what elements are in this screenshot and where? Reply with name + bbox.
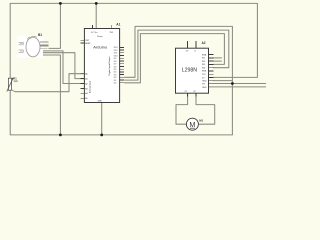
Arduino Uno A1 [80, 23, 124, 103]
B1 top coil bumps [28, 36, 37, 39]
wire Arduino GND [101, 103, 103, 135]
wire 5V drop to B1 [49, 3, 61, 48]
svg-text:GND: GND [202, 81, 207, 83]
wire GND left/bottom rail [10, 26, 232, 134]
junction on 5V rail at B1 drop [59, 2, 62, 5]
junction on L298N GND wire [231, 82, 234, 85]
wire L298N pin10 [209, 83, 267, 85]
wire B1 to A2 [41, 51, 84, 84]
wire L298N pin11 [209, 86, 267, 88]
A1 digital pins D13-D0 [120, 47, 125, 82]
junction on 5V rail at Arduino Vin drop [95, 2, 98, 5]
svg-text:Power: Power [97, 36, 103, 38]
wire motor lead 2 [196, 93, 215, 124]
svg-text:Arduino: Arduino [93, 45, 108, 50]
svg-text:ENB: ENB [202, 71, 207, 73]
svg-text:B1: B1 [38, 33, 42, 37]
B1 left terminal marks [19, 42, 24, 52]
svg-text:Vin: Vin [95, 32, 98, 34]
A1 analog pins A0-A5 [80, 74, 84, 99]
svg-text:ENA: ENA [202, 53, 207, 56]
A1 digital pin labels [114, 47, 119, 84]
B1 right pins [40, 42, 49, 49]
motor driver L298N A2 [176, 41, 214, 97]
svg-text:M1: M1 [199, 118, 203, 122]
wire B1 GND [41, 55, 60, 135]
wire B1 to A1 [41, 53, 84, 79]
B1 circular body [26, 37, 40, 57]
svg-text:A1: A1 [116, 23, 120, 27]
wire L298N pin2 stub [213, 57, 222, 59]
wire L298N pin3 stub [213, 60, 222, 62]
A2 body [176, 48, 209, 93]
A2 pins [188, 41, 214, 97]
wire loop D0 to IN-A [124, 34, 224, 83]
B1 body background [18, 36, 44, 58]
R1 wiper lead [12, 90, 15, 92]
svg-text:L298N: L298N [182, 67, 198, 73]
svg-text:GND: GND [202, 87, 207, 89]
A2 pin labels [185, 51, 208, 93]
svg-text:GND: GND [98, 101, 103, 103]
junction on GND rail at Arduino GND drop [100, 134, 103, 137]
svg-text:M: M [189, 120, 195, 129]
svg-text:Analog Input: Analog Input [89, 80, 92, 93]
wire pot wiper to A0 [15, 74, 85, 92]
A1 body [84, 29, 119, 103]
wire L298N pin9 [213, 80, 232, 82]
A1 top power pins and RST/AREF pins [80, 25, 111, 43]
wire loop D1 to IN-B [124, 30, 229, 80]
resistor R1 (trimmer) [7, 76, 18, 91]
sensor B1 [18, 33, 49, 58]
svg-text:AREF: AREF [85, 42, 91, 45]
M1 body [186, 118, 198, 130]
svg-text:Digital Input/Output: Digital Input/Output [108, 56, 111, 75]
junction on GND rail at B1 ground drop [59, 134, 62, 137]
motor M1 [186, 118, 203, 130]
svg-text:A2: A2 [202, 41, 206, 45]
R1 adjustment arrow [7, 78, 14, 92]
wire motor lead 1 [176, 93, 188, 124]
wire 5V top rail [10, 3, 257, 78]
R1 body [8, 78, 11, 90]
svg-text:1kΩ: 1kΩ [13, 80, 18, 83]
wire 5V drop to Arduino [95, 3, 97, 28]
